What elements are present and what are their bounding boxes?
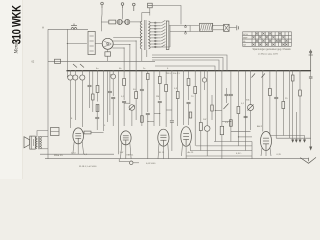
wire link L4 [166,109,172,111]
junction dots on chassis bus [70,70,301,71]
tube V5 magic eye envelope [261,132,272,151]
resistor R17 [282,102,285,109]
svg-text:1 W: 1 W [120,152,124,154]
tube V2 EBF11 electrodes [123,136,129,145]
wire lamp branch verticals [100,22,102,31]
capacitor C10 [122,100,126,102]
capacitor C21 column [88,84,92,86]
tube V1 ECH11 envelope [73,128,84,144]
tube V4 AZ11 electrodes [183,134,189,146]
svg-text:W 48 0,1 uF 5000: W 48 0,1 uF 5000 [79,166,97,168]
resistor R15 [237,107,240,114]
wire v172 [171,71,173,120]
potentiometer P2 volume [248,105,254,111]
arrow rectifier feed [309,147,312,151]
wire lamp feed [101,21,108,23]
terminal post T2 [121,3,124,8]
svg-text:A: A [42,26,44,30]
loudspeaker cone [24,137,30,148]
wire heater riser [295,112,297,140]
capacitor C22 column [108,90,112,92]
wire transformer secondary bottom leads [146,50,148,57]
tube V1 pins [73,142,84,155]
wire disc output 3 [113,44,130,46]
coupling box near bus [51,128,60,136]
fuse Si top of transformer [148,3,153,8]
electrolytic capacitor C5 [73,75,78,80]
wire v107 [107,71,109,122]
wire antenna lead-in horizontal [48,28,88,30]
phono jack [129,161,133,165]
svg-text:6,3V: 6,3V [277,154,282,156]
resistor R11 [187,79,190,86]
wire column drop x124 [123,48,125,71]
tube V3 EL11 envelope [158,129,169,146]
capacitor C7 [95,116,99,118]
wire heater line 4 [186,155,252,157]
wire disc output 2 [113,40,136,42]
wire transformer to bus [40,136,48,138]
wire heater line 2 [196,145,252,147]
resistor R7 [147,74,150,80]
wire link L1 [154,113,160,115]
tube V2 pins [121,143,132,159]
paper left margin shading [0,0,22,179]
wire heater line 1 [214,141,252,143]
wire v154 [153,71,155,126]
wire choke to plug [213,25,224,27]
tube V3 EL11 electrodes [160,135,166,146]
wire link L3 [124,102,130,104]
voltage selector bar [166,21,169,50]
wire chassis heavy bus [67,70,312,72]
wire from box to disc [95,43,102,45]
wire column drop x136 [135,41,137,71]
resistor R8 [158,77,161,84]
capacitor C9 [111,96,115,98]
scale lamp La1 [117,19,122,24]
wire bottom bus lower [45,158,309,160]
mains plug symbol [237,25,239,30]
resistor R9 [165,85,168,92]
electrolytic capacitor C6 [80,75,85,80]
svg-text:Au 23: Au 23 [188,151,194,154]
resistor R21 below disc [105,52,111,56]
output transformer Tr2 core [38,136,40,149]
resistor R10 [176,92,179,99]
wire switch output right [169,25,199,27]
wire vertical drop from antenna circuit [66,29,68,70]
trimmer capacitor C8 [111,74,116,79]
interference capacitor C3 block [224,24,230,31]
resistor R2 [96,86,99,93]
wire heater line 3 [190,150,252,152]
resistor R18 right column [291,75,294,81]
wire transformer top to fuse [149,8,151,16]
junction capacitors C1 C2 across mains [185,26,187,28]
wire upper bus [48,60,155,62]
output transformer Tr2 secondary [40,137,41,149]
wire main vertical bus x48 [47,29,49,158]
switch contact ticks right [252,74,265,78]
wire lower mains wire [170,31,199,33]
svg-text:an Masse geg. 220V: an Masse geg. 220V [258,54,279,56]
resistor R1 lamp feed [109,20,116,24]
electrolytic capacitor C4 [68,75,73,80]
wire to mains plug [229,26,236,28]
wire link L6 [222,121,231,123]
terminal post T1 [101,2,104,8]
wire v75 down [74,86,76,120]
wire v245 [245,71,247,151]
output transformer Tr2 primary [36,137,37,149]
transformer Tr1 core [144,20,146,50]
wire link L2 [148,121,154,123]
tube socket voltage table grid [243,32,292,47]
svg-text:310 WKK: 310 WKK [10,5,23,44]
external antenna symbol [309,50,313,71]
wire fuse to switch feed [152,6,181,25]
capacitor C18 [274,96,278,98]
wire link L5 [215,109,222,111]
svg-text:6,3V~: 6,3V~ [236,153,242,155]
wire bottom bus upper [40,153,114,155]
wire v82 down [81,86,83,127]
capacitor C17 [229,93,233,95]
wire left feed to shield box [67,43,87,45]
wire disc output 1 [113,37,142,39]
resistor R22 [230,120,233,127]
resistor R13 [199,123,202,131]
table X marks [253,33,288,46]
tube V5 pins [261,148,271,156]
wire v118 [118,71,120,155]
capacitor C13 [158,100,162,102]
wire v67 [66,71,68,77]
transformer Tr1 primary top lead [141,13,143,22]
tuning drive disc [102,38,113,49]
wire transformer top connection [37,131,48,137]
resistor R6 [135,92,138,99]
svg-text:AM 2: AM 2 [257,125,263,128]
wire v289 [289,71,291,139]
resistor R12 [194,87,197,94]
svg-text:2M: 2M [156,96,159,98]
resistor R23 column [92,94,95,100]
tube V2 EBF11 envelope [121,131,132,145]
svg-text:EBF: EBF [243,37,248,39]
wire link L8 [238,136,252,138]
wire v130 [129,71,131,104]
transformer Tr1 primary winding [140,21,142,49]
resistor R14 [220,126,223,134]
switch contact arrows [73,64,84,68]
wire transformer secondary taps [150,22,157,48]
scale lamp La2 [125,19,130,24]
arrowheads on heater risers [291,140,306,143]
voltage selector switch contacts [156,20,165,47]
resistor R19 right column [299,90,302,96]
fuse F1 on upper bus [55,59,61,63]
resistor R5 [123,79,126,86]
wire v103 [103,71,105,131]
wire right riser 1 [251,142,253,159]
wire heater horizontals [271,135,305,137]
tube V3 pins [158,144,169,159]
svg-text:EL 11: EL 11 [159,152,165,154]
tube V5 magic eye electrodes [263,138,269,150]
wire disc output 4 [112,47,124,49]
resistor R3 [96,105,99,112]
resistor R16 [269,89,272,96]
antenna coil L1 above lead-in [71,24,77,30]
capacitor C12 [146,112,150,114]
shield box around band switch unit [88,31,95,54]
wire v262 [262,71,264,132]
extra components right-mid [202,78,206,82]
wire phono branch [118,159,120,162]
transformer Tr1 secondary winding [149,21,151,49]
svg-text:MStd 4%: MStd 4% [54,154,63,157]
capacitor C11 [140,88,144,90]
transformer Tr1 primary bottom lead [141,49,143,61]
wire heater riser short [304,135,306,139]
tube V4 AZ11 envelope [181,127,192,147]
wire link L7 [231,130,251,132]
potentiometer P1 [129,105,135,111]
svg-text:2M 0,1 50k 0,5: 2M 0,1 50k 0,5 [166,73,181,75]
wire v70 down [69,86,71,128]
wire v183 [183,71,185,125]
svg-text:EBF 11: EBF 11 [127,155,135,157]
tube V1 ECH11 electrodes [75,134,81,144]
wire column drop x130 [129,45,131,71]
svg-text:Spannungen gemessen geg. Chass: Spannungen gemessen geg. Chassis [253,49,292,51]
ground symbol chassis [300,157,316,163]
loudspeaker frame [30,136,36,149]
resistor R20 mid [141,116,144,123]
capacitor C14 [170,120,174,122]
svg-text:ECH: ECH [243,34,248,36]
tube V4 pins [182,144,191,159]
terminal post T3 [133,3,136,11]
wire v215 [214,71,216,142]
resistor R4 beside tube V1 [84,131,91,134]
capacitor C19 right edge [309,76,313,78]
trimmer C16 [204,126,210,132]
nested step-down wires from switch area [152,55,227,71]
capacitor C15 [187,101,191,103]
interference choke Dr1 [200,23,213,31]
capacitor C20 [244,115,248,117]
switch contact S2 [224,104,229,110]
svg-text:0,05 5000: 0,05 5000 [146,163,156,165]
title Mende 310 WKK rotated [10,5,23,55]
value labels [54,68,288,168]
